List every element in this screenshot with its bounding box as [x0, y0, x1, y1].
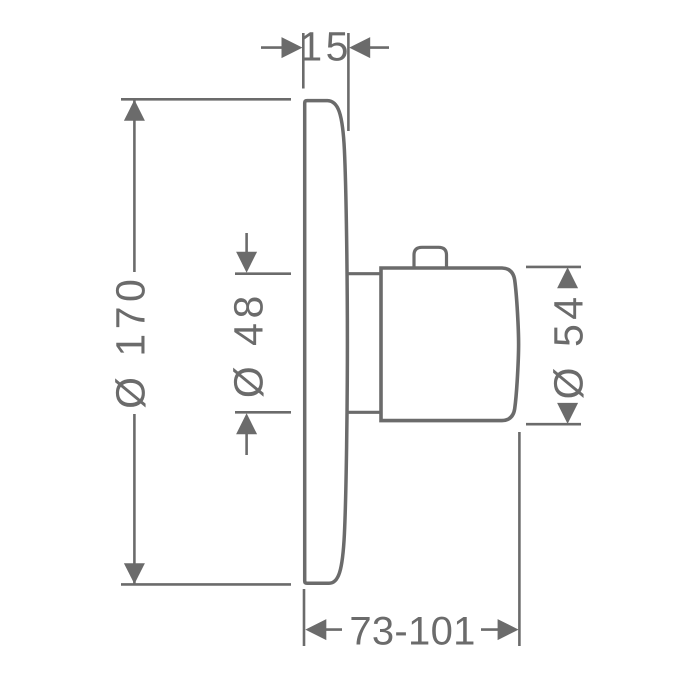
- dim 48: bottom extension line: [235, 411, 291, 414]
- dim 48: bottom arrow (outside, pointing up): [245, 433, 248, 455]
- dim 15: right extension line: [347, 33, 350, 131]
- handle knob: [381, 268, 519, 421]
- dim 15: right arrow: [369, 46, 389, 49]
- sleeve bottom line: [346, 411, 381, 414]
- svg-text:73-101: 73-101: [349, 610, 475, 654]
- dim 48: top arrow (outside, pointing down): [245, 233, 248, 254]
- dim 54: top extension line: [526, 266, 581, 269]
- dim 54: bottom arrow: [557, 403, 578, 424]
- dim 15: left extension line: [302, 33, 305, 89]
- dim 73-101: left extension line: [303, 589, 306, 646]
- svg-text:15: 15: [299, 23, 351, 69]
- dim 170: top arrow: [124, 100, 145, 121]
- dim 170: dimension line upper segment: [133, 100, 136, 272]
- wall plate (escutcheon, side view): [305, 101, 348, 584]
- dim 170: bottom arrow: [124, 563, 145, 584]
- svg-text:Ø 48: Ø 48: [225, 291, 271, 398]
- dim 170: bottom extension line: [121, 583, 291, 586]
- dim 54: bottom extension line: [526, 423, 581, 426]
- temperature button tab: [414, 247, 447, 268]
- dim 170: dimension line lower segment: [133, 414, 136, 584]
- dim 54: top arrow: [557, 267, 578, 288]
- dim 73-101: right extension line: [518, 432, 521, 646]
- dim 15: left arrow: [261, 46, 284, 49]
- sleeve top line: [346, 272, 381, 275]
- dim 73-101: left arrow: [325, 628, 342, 631]
- svg-text:Ø 170: Ø 170: [107, 275, 153, 409]
- svg-text:Ø 54: Ø 54: [545, 292, 591, 399]
- dim 48: top extension line: [235, 272, 291, 275]
- dim 170: top extension line: [121, 98, 291, 101]
- dim 73-101: right arrow: [481, 628, 498, 631]
